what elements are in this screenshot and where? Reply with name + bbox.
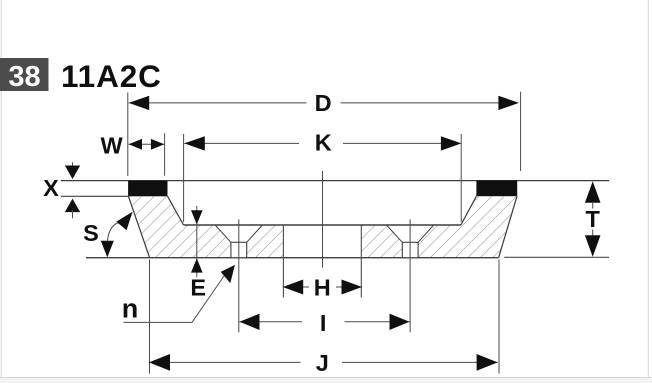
D right arrowhead	[498, 96, 519, 110]
right hole countersink right slant	[418, 225, 434, 242]
dimension D line	[129, 102, 499, 104]
wheel bottom line	[86, 257, 498, 259]
T up stem	[592, 202, 594, 209]
badge 38	[0, 58, 49, 91]
recess floor line	[184, 224, 461, 226]
D right extension line	[520, 92, 522, 171]
abrasive bar bottom extension line	[61, 195, 128, 197]
bore left edge and H extension	[282, 225, 284, 298]
svg-text:D: D	[315, 90, 332, 116]
right abrasive bar	[476, 181, 517, 197]
X upper arrowhead	[65, 166, 80, 180]
svg-text:E: E	[190, 275, 206, 301]
E dimension line	[196, 206, 198, 277]
n leader arrowhead	[221, 265, 235, 283]
T down stem	[592, 230, 594, 237]
I right arrowhead	[390, 314, 410, 330]
J left extension line	[149, 260, 151, 374]
bottom T extension line	[504, 256, 609, 258]
right hole square	[402, 242, 418, 257]
svg-text:W: W	[101, 132, 124, 158]
dimension K line	[184, 142, 441, 144]
X upper arrow stem	[72, 162, 74, 170]
I left arrowhead	[240, 314, 260, 330]
X lower arrowhead	[65, 199, 80, 213]
dimension H line	[283, 286, 362, 288]
T down arrowhead	[585, 235, 601, 257]
left inner slant edge	[168, 196, 184, 225]
svg-text:H: H	[314, 275, 331, 301]
footer line	[0, 376, 652, 378]
S arc	[107, 222, 121, 243]
svg-text:X: X	[43, 175, 59, 201]
right outer slant edge	[499, 196, 517, 258]
left hole countersink right slant	[247, 225, 263, 242]
svg-text:38: 38	[8, 61, 40, 93]
svg-text:J: J	[316, 350, 329, 376]
D left arrowhead	[129, 96, 150, 110]
H right arrowhead	[342, 280, 363, 295]
svg-text:11A2C: 11A2C	[61, 58, 162, 94]
wheel center line	[322, 171, 324, 268]
left hole center line	[238, 219, 240, 332]
svg-text:I: I	[320, 310, 327, 336]
T up arrowhead	[585, 181, 601, 203]
svg-text:K: K	[315, 130, 332, 156]
right inner slant edge	[461, 196, 477, 225]
svg-text:T: T	[586, 206, 601, 232]
K left arrowhead	[184, 136, 205, 150]
K left extension line	[183, 134, 185, 222]
K right extension line	[460, 134, 462, 222]
S lower arrowhead	[101, 241, 114, 258]
right body section hatch	[361, 196, 517, 258]
J left arrowhead	[149, 354, 170, 371]
D left extension line	[127, 93, 129, 177]
E lower arrowhead	[191, 258, 203, 272]
left body section hatch	[128, 196, 283, 258]
dimension J line	[149, 361, 498, 363]
E upper arrowhead	[191, 210, 203, 224]
K right arrowhead	[441, 136, 462, 150]
H left arrowhead	[283, 280, 304, 295]
svg-text:n: n	[122, 293, 139, 323]
right hole center line	[409, 219, 411, 332]
footer strip	[0, 378, 652, 383]
dimension I line	[240, 321, 410, 323]
left hole square	[231, 242, 247, 257]
W left arrowhead	[129, 139, 142, 150]
W right extension line	[164, 133, 166, 176]
J right arrowhead	[477, 354, 498, 371]
dimension W line	[129, 143, 165, 145]
J right extension line	[498, 260, 500, 374]
left outer slant edge	[128, 196, 149, 258]
svg-text:S: S	[83, 220, 99, 246]
S upper arrowhead	[116, 212, 132, 231]
wheel top surface line	[61, 180, 609, 182]
right hole countersink left slant	[387, 225, 403, 242]
page left border	[0, 0, 2, 383]
left abrasive bar	[128, 181, 167, 197]
W right arrowhead	[151, 139, 164, 150]
X lower arrow stem	[72, 210, 74, 218]
n leader line	[124, 270, 229, 323]
left hole countersink left slant	[215, 225, 231, 242]
bore right edge and H extension	[360, 225, 362, 298]
page right border	[647, 0, 649, 383]
